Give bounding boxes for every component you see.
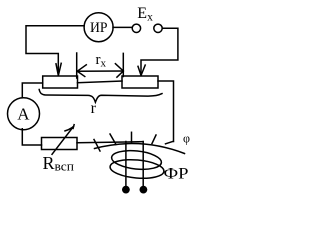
svg-text:ИР: ИР [90,20,108,36]
svg-text:A: A [17,104,30,123]
svg-text:φ: φ [183,130,190,145]
svg-text:r: r [91,100,97,117]
svg-text:rx: rx [96,52,107,70]
svg-text:Ex: Ex [137,5,153,23]
svg-text:Rвсп: Rвсп [43,153,75,174]
svg-text:ФР: ФР [164,166,189,183]
